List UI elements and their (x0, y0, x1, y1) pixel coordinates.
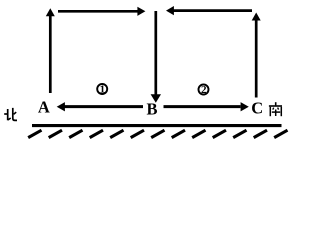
label circled 2 (199, 84, 209, 96)
svg-text:1: 1 (100, 84, 106, 96)
wire arrow B to A (displacement 1) (57, 102, 143, 111)
ground surface line (32, 124, 282, 127)
svg-text:2: 2 (201, 84, 207, 96)
wire right vertical arrow up (C to top) (252, 13, 261, 98)
wire arrow B to C (displacement 2) (164, 102, 249, 111)
svg-text:A: A (38, 98, 50, 117)
wire top-right horizontal arrow left (C-top to B-top) (166, 6, 252, 15)
label South (nan) hand-drawn (269, 102, 282, 116)
wire middle vertical arrow down (top to B) (151, 11, 161, 103)
ground hatching (28, 130, 287, 137)
svg-text:B: B (146, 100, 157, 119)
wire left vertical arrow up (A to top) (46, 8, 55, 93)
label circled 1 (97, 84, 107, 96)
svg-text:C: C (251, 98, 263, 117)
label North (bei) hand-drawn (4, 108, 17, 121)
wire top-left horizontal arrow right (58, 7, 145, 16)
